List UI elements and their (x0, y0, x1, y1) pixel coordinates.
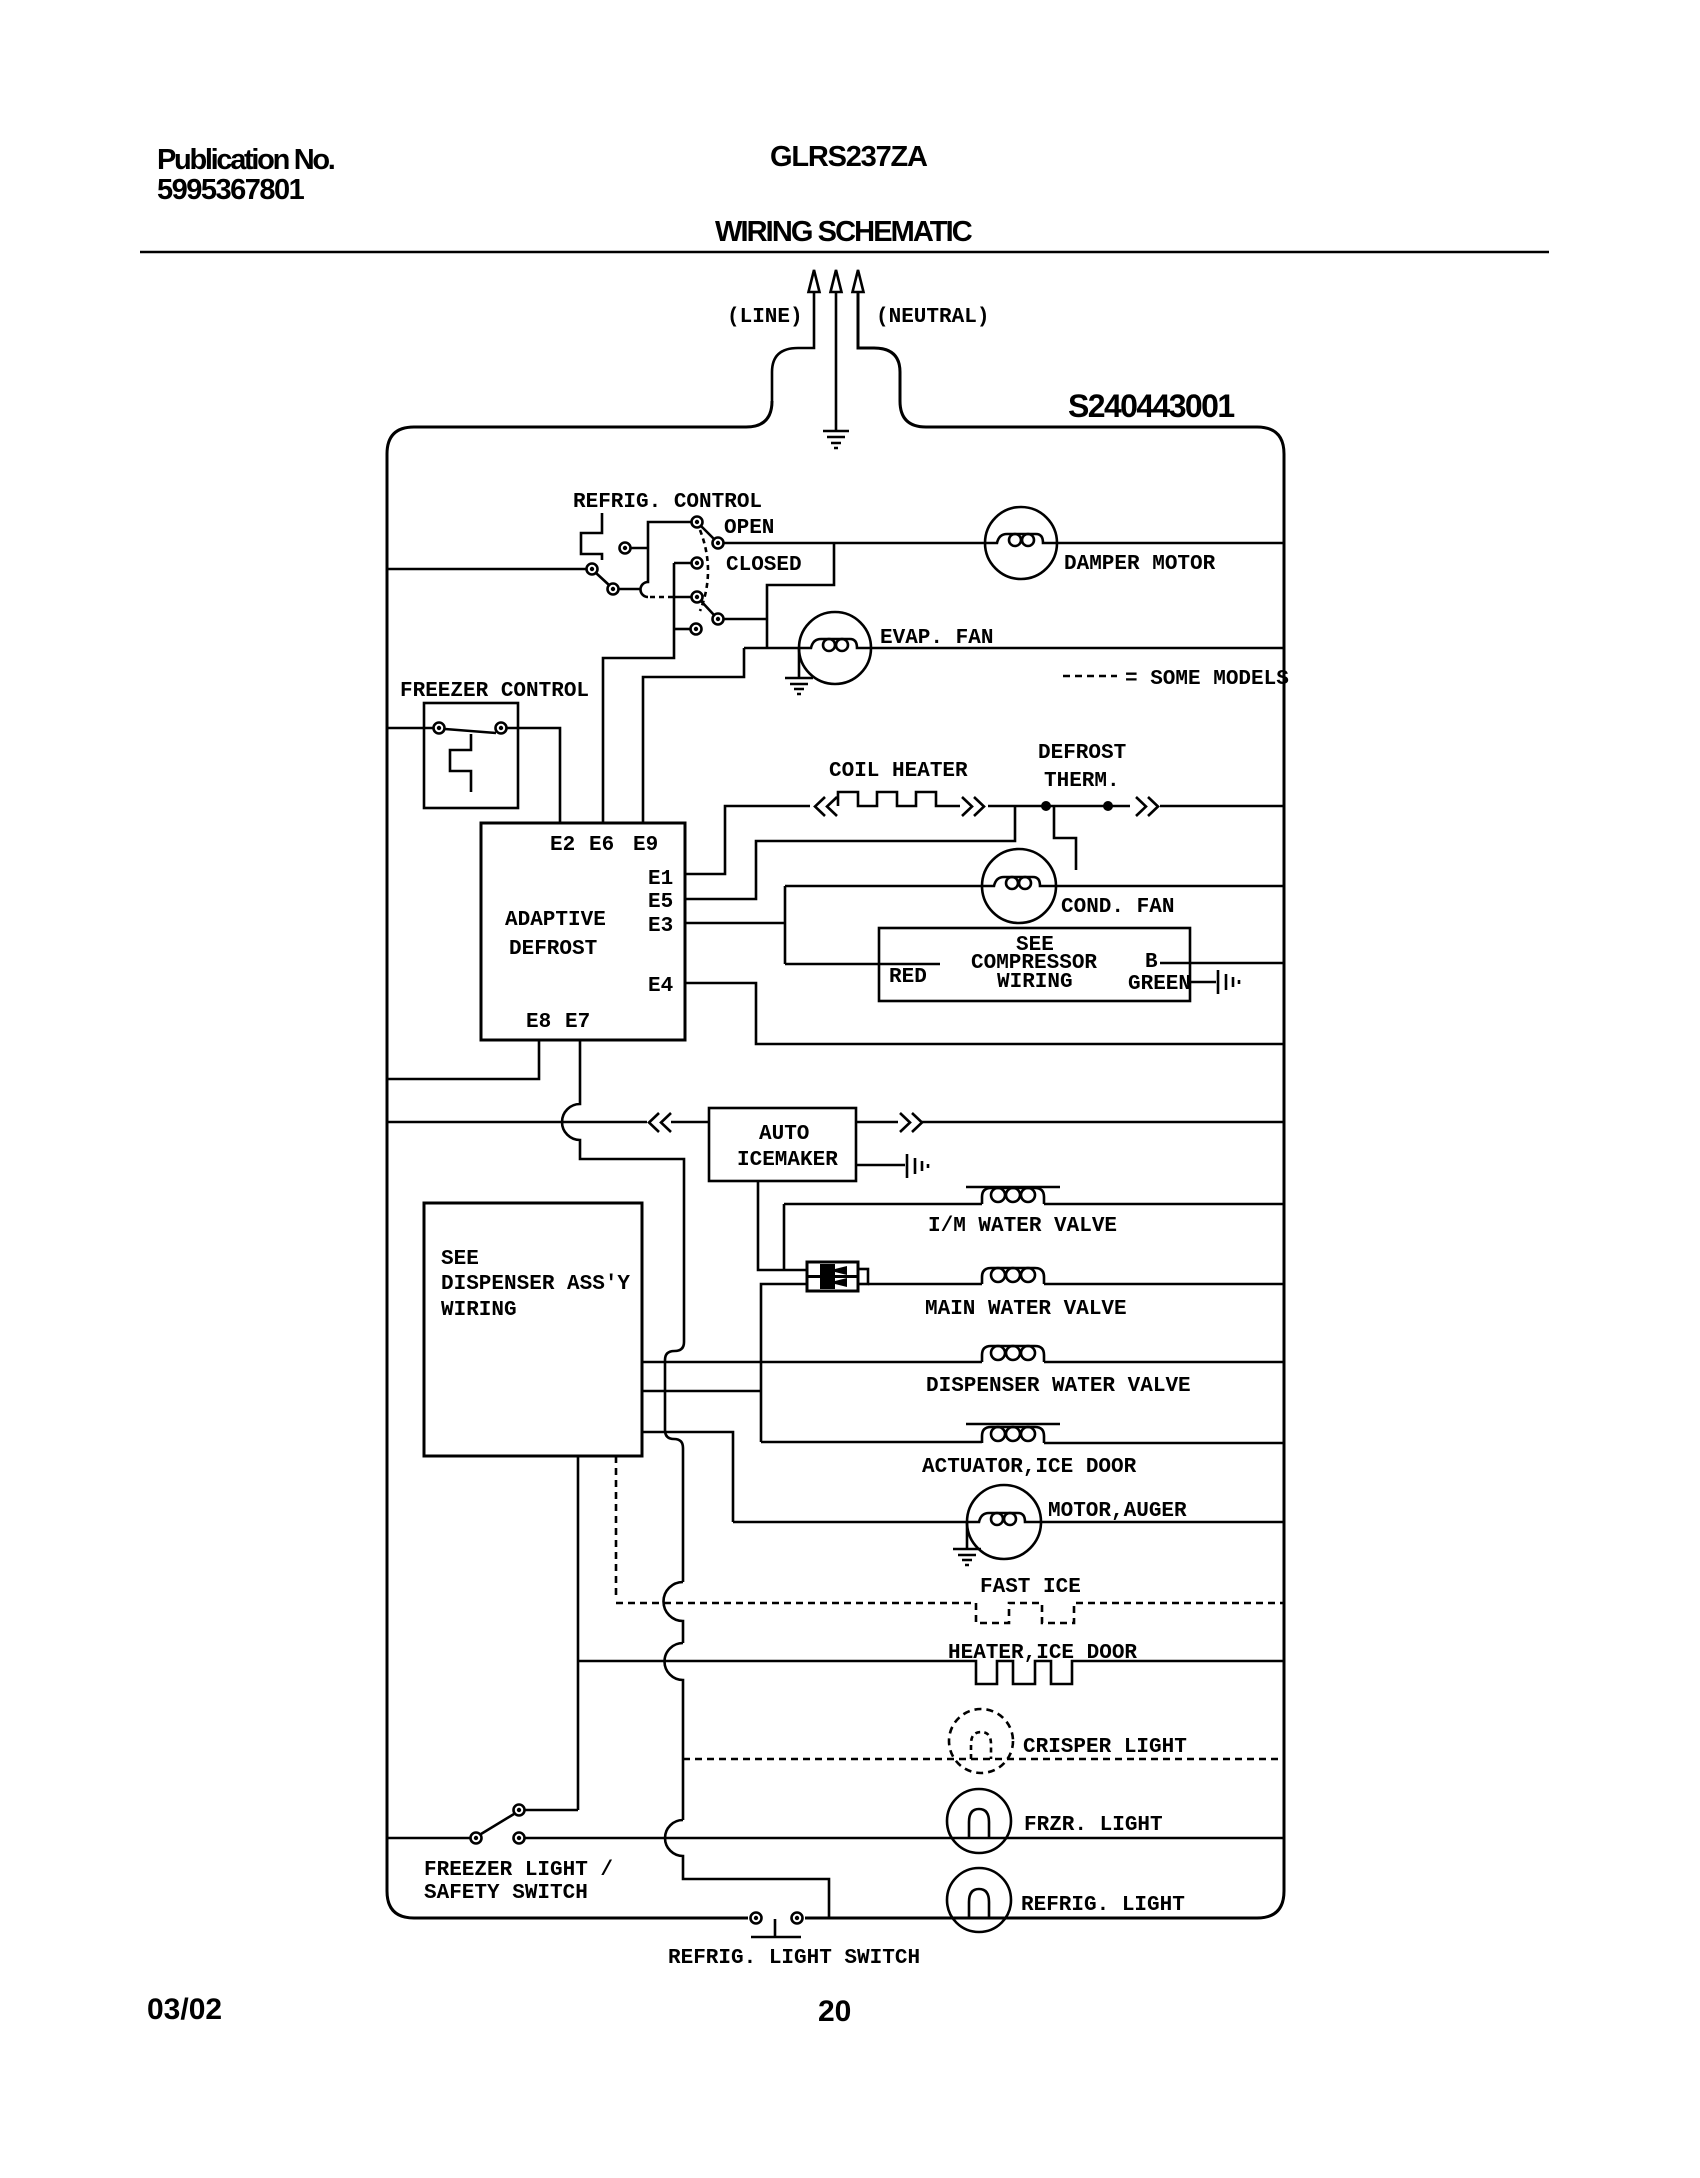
arrow head (LINE) (809, 270, 820, 292)
wire: OPEN output to damper motor row (724, 542, 986, 545)
cond fan circle (982, 849, 1056, 923)
terminal: safety switch left (471, 1833, 482, 1844)
wire: mid-left terminal to open-top drop (631, 547, 649, 550)
wire: dispenser box down to safety switch branch (577, 1456, 580, 1810)
svg-text:DISPENSER ASS'Y: DISPENSER ASS'Y (441, 1273, 630, 1296)
svg-text:REFRIG. LIGHT SWITCH: REFRIG. LIGHT SWITCH (668, 1947, 920, 1970)
terminal: safety switch upper (514, 1805, 525, 1816)
evap fan row (744, 647, 1284, 650)
part number S240443001 (1068, 388, 1234, 425)
title: WIRING SCHEMATIC (715, 216, 971, 249)
svg-text:COIL HEATER: COIL HEATER (829, 760, 968, 783)
svg-text:COND. FAN: COND. FAN (1061, 896, 1174, 919)
terminal: refrig control mid tap (692, 558, 703, 569)
svg-text:GREEN: GREEN (1128, 973, 1191, 996)
wire: icemaker out to right rail (856, 1121, 1284, 1124)
wire: freezer control to E2 (507, 728, 561, 823)
leader jog from REFRIG. CONTROL label (581, 513, 602, 560)
svg-text:FAST ICE: FAST ICE (980, 1576, 1081, 1599)
wire: E3 to cond fan branch (685, 922, 785, 925)
switch blade: OPEN position (701, 526, 714, 539)
svg-text:ICEMAKER: ICEMAKER (737, 1149, 838, 1172)
wire: E7 hop over fast ice row (664, 1582, 684, 1643)
svg-text:DEFROST: DEFROST (509, 938, 597, 961)
I/M water valve coil core line (966, 1186, 1060, 1189)
dispenser assembly box (424, 1203, 642, 1456)
refrig light circle (947, 1868, 1011, 1932)
wire: bus spur to CLOSED input terminal (674, 596, 691, 599)
title rule under WIRING SCHEMATIC (140, 251, 1549, 254)
main schematic border: top-left corner, left rail, bottom-left corner, bottom edge to light switch (387, 401, 772, 1918)
chevrons on defrost therm output (1136, 797, 1158, 816)
svg-text:E7: E7 (565, 1011, 590, 1034)
wire: left rail to auto icemaker row (387, 1121, 709, 1124)
damper motor row to right rail (1057, 542, 1284, 545)
freezer control box (424, 703, 518, 808)
arrow head (NEUTRAL) (853, 270, 864, 292)
wire: E5 to coil heater junction (685, 806, 1015, 899)
wire: icemaker bottom to water valve (758, 1181, 807, 1270)
actuator coil core line (966, 1423, 1060, 1426)
wire: center lead down to earth ground (835, 292, 838, 430)
wire: OPEN top terminal over and down with hook (641, 522, 692, 597)
adaptive defrost board box (481, 823, 685, 1040)
wire: compressor B lead to right rail (1160, 962, 1284, 965)
switch blade: freezer control (445, 729, 496, 733)
refrig light filament (969, 1889, 989, 1918)
terminal: refrig light switch left (751, 1913, 762, 1924)
wire: branch to compressor RED lead (785, 963, 940, 966)
wire: defrost therm to right rail (1160, 805, 1284, 808)
dual water valve body (807, 1262, 858, 1291)
footer: date 03/02 (147, 1993, 222, 2027)
ground symbol under supply (823, 431, 849, 448)
svg-text:THERM.: THERM. (1044, 770, 1120, 793)
wire: dispenser box to auger motor row (642, 1432, 733, 1522)
svg-text:MAIN WATER VALVE: MAIN WATER VALVE (925, 1298, 1127, 1321)
terminal: safety switch right (514, 1833, 525, 1844)
switch blade: CLOSED position (701, 601, 714, 615)
wire: evap row lead to E9 (643, 648, 744, 823)
wire: mid tap to center bus (674, 562, 691, 565)
wire: LINE lead into border (772, 292, 814, 401)
refrig light switch plunger (751, 1919, 801, 1937)
legend dashed sample (1063, 675, 1117, 678)
wire: damper row tap down to CLOSED output (724, 543, 835, 619)
svg-text:FRZR. LIGHT: FRZR. LIGHT (1024, 1814, 1163, 1837)
chevrons into auto icemaker (649, 1113, 671, 1132)
svg-text:AUTO: AUTO (759, 1123, 809, 1146)
wire: E1 up to coil heater (685, 806, 810, 874)
svg-text:ACTUATOR,ICE DOOR: ACTUATOR,ICE DOOR (922, 1456, 1137, 1479)
terminal: refrig control OPEN output (713, 538, 724, 549)
wire: actuator ice door row (761, 1442, 1284, 1443)
wire: dispenser box to actuator feed (642, 1390, 761, 1393)
svg-text:= SOME MODELS: = SOME MODELS (1125, 668, 1289, 691)
wire: wiper lower terminal to hook (619, 588, 642, 591)
terminal: refrig control common (587, 564, 598, 575)
compressor wiring box (879, 928, 1190, 1001)
svg-text:EVAP. FAN: EVAP. FAN (880, 627, 993, 650)
terminal: refrig control bottom (691, 624, 702, 635)
svg-text:(NEUTRAL): (NEUTRAL) (876, 306, 989, 329)
svg-text:OPEN: OPEN (724, 517, 774, 540)
wire: icemaker ground lead (856, 1164, 905, 1167)
svg-text:E4: E4 (648, 975, 673, 998)
main water valve row (868, 1283, 1284, 1286)
cond fan coil (982, 877, 1056, 886)
terminal: refrig control OPEN top (692, 517, 703, 528)
svg-text:RED: RED (889, 966, 927, 989)
dashed crisper light circle (949, 1709, 1013, 1773)
actuator ice door coil (982, 1427, 1044, 1443)
switch blade: refrig control common (596, 573, 609, 585)
damper motor circle (985, 507, 1057, 579)
svg-text:SAFETY SWITCH: SAFETY SWITCH (424, 1882, 588, 1905)
chassis ground at icemaker (907, 1154, 928, 1178)
wire: compressor GREEN lead to chassis ground (1190, 981, 1216, 984)
dashed fast ice switch square wave (976, 1603, 1284, 1623)
auger motor coil (967, 1513, 1041, 1522)
svg-text:ADAPTIVE: ADAPTIVE (505, 909, 606, 932)
evap fan circle (799, 612, 871, 684)
auto icemaker box (709, 1108, 856, 1181)
wire: left rail to refrig control common terminal (387, 568, 586, 571)
chevrons into coil heater (815, 797, 837, 816)
wire: safety switch upper to dispenser drop (525, 1809, 579, 1812)
main water valve coil (982, 1268, 1044, 1284)
svg-text:DAMPER MOTOR: DAMPER MOTOR (1064, 553, 1216, 576)
wire: E7 hop over freezer light row then to refrig row (665, 1820, 829, 1918)
svg-text:E1: E1 (648, 868, 673, 891)
svg-text:MOTOR,AUGER: MOTOR,AUGER (1048, 1500, 1187, 1523)
ground symbol at auger motor (953, 1549, 981, 1565)
wire: E8 to left rail (387, 1040, 539, 1079)
freezer light circle (947, 1789, 1011, 1853)
terminal: refrig light switch right (792, 1913, 803, 1924)
wire: valve bottom lead left and down (761, 1284, 807, 1442)
switch blade: freezer light safety switch (481, 1814, 514, 1834)
wire: E7 hop over heater row (665, 1643, 684, 1820)
svg-text:DEFROST: DEFROST (1038, 742, 1126, 765)
svg-text:E5: E5 (648, 891, 673, 914)
svg-text:WIRING: WIRING (997, 971, 1073, 994)
wire: CLOSED output node down to evap row (766, 619, 769, 648)
arrow head (center ground) (831, 270, 842, 292)
freezer light row (387, 1837, 1284, 1840)
I/M water valve coil (982, 1188, 1044, 1204)
heater ice door row with element square wave (578, 1661, 1284, 1684)
dashed fast ice row (616, 1602, 976, 1605)
dashed link from hook to center bus (650, 596, 674, 599)
ground symbol at evap fan (785, 678, 813, 694)
freezer control bellows staircase (450, 734, 471, 792)
chassis ground at compressor (1218, 970, 1239, 994)
terminal: refrig control mid-left (620, 543, 631, 554)
wire: coil heater to defrost thermostat (988, 805, 1130, 808)
main schematic border: NEUTRAL lead, top edge right part, right rail, bottom-right corner (805, 292, 1284, 1918)
svg-text:E9: E9 (633, 834, 658, 857)
dashed wiper travel arc (700, 530, 708, 611)
ground stem at auger motor (966, 1522, 969, 1548)
cond fan row (785, 885, 1284, 888)
header: publication number (157, 144, 334, 177)
wire: bus spur to bottom terminal (674, 628, 690, 631)
dispenser water valve row from dispenser box (642, 1361, 1284, 1364)
terminal: refrig control wiper lower (608, 584, 619, 595)
defrost thermostat bellows (1054, 806, 1076, 870)
svg-text:(LINE): (LINE) (727, 306, 803, 329)
svg-text:E2: E2 (550, 834, 575, 857)
auger motor row (733, 1521, 1284, 1524)
chevrons out of coil heater (962, 797, 984, 816)
terminal: refrig control CLOSED output (713, 614, 724, 625)
svg-text:CLOSED: CLOSED (726, 554, 802, 577)
svg-text:I/M WATER VALVE: I/M WATER VALVE (928, 1215, 1117, 1238)
wire: I/M valve row tap (783, 1204, 786, 1270)
footer: page 20 (818, 1995, 851, 2029)
dispenser water valve coil (982, 1346, 1044, 1362)
damper motor coil (985, 534, 1057, 543)
header: model number GLRS237ZA (770, 141, 927, 174)
svg-text:FREEZER CONTROL: FREEZER CONTROL (400, 680, 589, 703)
svg-text:E8: E8 (526, 1011, 551, 1034)
svg-text:E6: E6 (589, 834, 614, 857)
svg-text:FREEZER LIGHT /: FREEZER LIGHT / (424, 1859, 613, 1882)
junction node left of defrost thermostat (1041, 801, 1051, 811)
dashed fast ice drop from dispenser box (615, 1456, 618, 1597)
water valve check triangles (829, 1266, 847, 1275)
terminal: refrig control CLOSED input (692, 592, 703, 603)
svg-text:WIRING: WIRING (441, 1299, 517, 1322)
water valve outlet tab (858, 1269, 868, 1284)
branch vertical joining cond fan and compressor (784, 886, 787, 964)
svg-text:E3: E3 (648, 915, 673, 938)
ground stem at evap fan (798, 648, 801, 677)
svg-text:REFRIG. LIGHT: REFRIG. LIGHT (1021, 1894, 1185, 1917)
wire: E4 to neutral rail (685, 983, 1284, 1044)
junction node right of defrost thermostat (1103, 801, 1113, 811)
center bus of refrig control down to E6 (603, 563, 674, 823)
chevrons out of icemaker row (900, 1113, 922, 1132)
wire: left rail to freezer control (387, 727, 433, 730)
dashed crisper light filament (971, 1732, 991, 1759)
svg-text:CRISPER LIGHT: CRISPER LIGHT (1023, 1736, 1187, 1759)
dashed crisper light row from E7 drop (683, 1758, 1284, 1761)
evap fan coil (799, 639, 870, 648)
svg-text:B: B (1145, 951, 1158, 974)
svg-text:SEE: SEE (441, 1248, 479, 1271)
svg-text:HEATER,ICE DOOR: HEATER,ICE DOOR (948, 1642, 1137, 1665)
svg-text:REFRIG. CONTROL: REFRIG. CONTROL (573, 491, 762, 514)
I/M water valve row (784, 1203, 1284, 1206)
coil heater element square wave (838, 792, 960, 806)
svg-text:DISPENSER WATER VALVE: DISPENSER WATER VALVE (926, 1375, 1191, 1398)
auger motor circle (967, 1485, 1041, 1559)
wire: E7 down with hop over icemaker row (562, 1040, 684, 1582)
terminal: freezer control left (434, 723, 445, 734)
freezer light filament (969, 1809, 989, 1838)
terminal: freezer control right (496, 723, 507, 734)
